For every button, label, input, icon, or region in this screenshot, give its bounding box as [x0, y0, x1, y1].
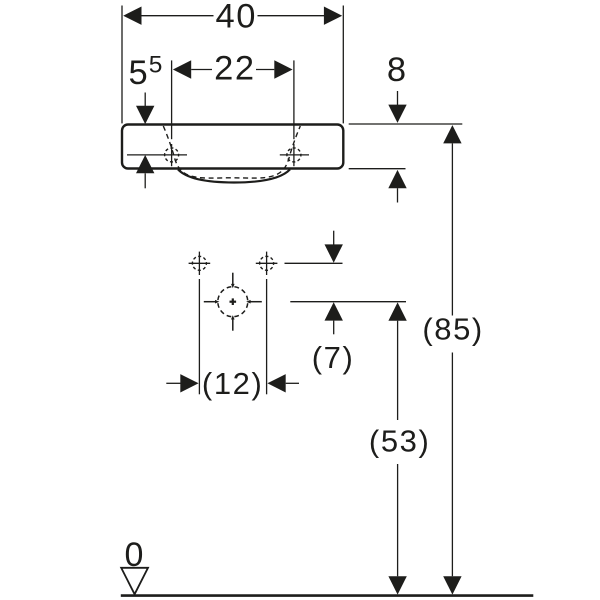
svg-text:22: 22 [214, 50, 256, 88]
svg-text:5: 5 [149, 52, 163, 79]
svg-text:(85): (85) [422, 312, 484, 347]
basin hidden interior (dashed) [163, 126, 300, 178]
svg-text:40: 40 [216, 0, 258, 35]
dimension 22 [172, 60, 294, 139]
dimension (53) [388, 302, 406, 594]
fixing hole right [256, 252, 278, 275]
svg-text:(53): (53) [369, 424, 431, 459]
dimension (85) [443, 125, 461, 594]
datum triangle [121, 568, 148, 594]
svg-text:8: 8 [387, 51, 406, 89]
dimension (7) [285, 231, 407, 335]
ground line [121, 594, 534, 597]
tap hole right [280, 144, 309, 166]
drain hole [204, 273, 262, 331]
fixing hole left [189, 252, 211, 275]
dimension (12) [166, 279, 299, 394]
dimension 40 [122, 6, 343, 124]
svg-text:(7): (7) [312, 340, 355, 375]
svg-text:(12): (12) [202, 366, 264, 401]
basin bowl (solid) [178, 169, 290, 182]
dimension 8 [349, 91, 463, 203]
svg-text:5: 5 [129, 54, 148, 92]
tap hole left [127, 144, 187, 166]
washbasin outline [122, 125, 343, 169]
